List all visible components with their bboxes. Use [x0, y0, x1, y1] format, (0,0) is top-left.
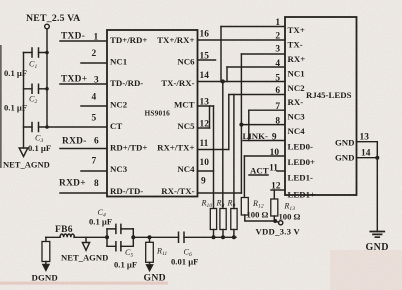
node VDD terminal circle — [275, 221, 278, 222]
svg-text:8: 8 — [275, 117, 280, 127]
svg-text:7: 7 — [92, 157, 97, 167]
junction C2-rail — [45, 87, 49, 91]
svg-text:TX-/RX-: TX-/RX- — [161, 78, 194, 88]
svg-text:HS9016: HS9016 — [145, 109, 171, 118]
svg-text:5: 5 — [92, 114, 97, 124]
svg-text:GND: GND — [144, 273, 166, 284]
svg-text:1: 1 — [94, 33, 99, 43]
svg-text:CT: CT — [110, 121, 122, 131]
resistor to DGND (unlabeled) — [45, 237, 47, 241]
svg-text:0.1 µF: 0.1 µF — [114, 260, 137, 270]
wire RJ45 pin1 TX+ line — [221, 26, 285, 28]
svg-text:RXD-: RXD- — [62, 137, 87, 147]
svg-text:0.1 µF: 0.1 µF — [4, 68, 27, 78]
svg-text:RJ45-LEDS: RJ45-LEDS — [306, 90, 352, 100]
svg-text:0.1 µF: 0.1 µF — [28, 143, 51, 153]
wire TXD- to pin1 — [60, 40, 107, 42]
wire LINK- line RJ45 pin9 — [243, 140, 285, 142]
svg-text:11: 11 — [200, 139, 209, 149]
wire column pin10 to R12 — [243, 156, 245, 198]
junction C4 block left — [105, 235, 109, 239]
wire RJ45 pin11 LED1- line — [277, 170, 285, 172]
wire HS10 stub — [198, 170, 214, 172]
text labels — [3, 13, 99, 189]
svg-text:NET_2.5 VA: NET_2.5 VA — [26, 13, 80, 24]
svg-text:RD+/TD+: RD+/TD+ — [110, 143, 147, 153]
capacitor C4 (top branch) — [107, 224, 133, 233]
svg-text:TX+: TX+ — [288, 25, 305, 35]
junction C3-CT — [45, 125, 49, 129]
ground NET_AGND left (open triangle) — [19, 148, 28, 157]
wire HS12 stub — [198, 127, 210, 129]
wire pin2 stub — [81, 62, 107, 64]
svg-text:NC4: NC4 — [177, 164, 195, 174]
resistor R8 — [220, 209, 226, 230]
scan artifact right pink tint — [330, 250, 402, 290]
svg-text:RX-/TX-: RX-/TX- — [161, 186, 194, 196]
wire RJ45 pin12 LED1+ line — [271, 189, 285, 191]
svg-text:7: 7 — [275, 102, 280, 112]
capacitor value labels — [29, 60, 295, 259]
wire R8 bottom stub — [222, 230, 224, 238]
wire bottom rail left segment — [46, 236, 60, 238]
junction R10 rail — [212, 235, 216, 239]
wire column pin7 down — [248, 110, 250, 140]
wire HS15 stub — [198, 59, 216, 61]
wire RXD- to pin6 — [60, 148, 107, 150]
resistor R10 — [210, 209, 216, 230]
svg-text:NC3: NC3 — [110, 164, 128, 174]
wire CT pin5 — [47, 126, 107, 128]
svg-text:NC4: NC4 — [288, 126, 306, 136]
transformer U1 HS9016 box — [107, 30, 198, 197]
wire HS16 stub + RJ45 pin2 TX- line — [198, 39, 286, 41]
connector J1 RJ45-LEDS box — [285, 17, 357, 195]
wire HS14 stub + RJ45 pin5 NC2 line — [198, 81, 286, 83]
svg-text:13: 13 — [360, 133, 370, 143]
wire RJ45 pin3 RX+ line — [241, 53, 285, 55]
wire column pin6 to HS11 — [228, 95, 230, 150]
svg-text:100 Ω: 100 Ω — [279, 212, 301, 222]
svg-text:GND: GND — [335, 138, 355, 148]
svg-text:DGND: DGND — [32, 273, 58, 283]
wire RJ45 pin6 RX- line — [229, 94, 285, 96]
junction VDD node — [273, 219, 277, 223]
svg-text:TD-/RD-: TD-/RD- — [110, 78, 143, 88]
svg-text:TX+/RX+: TX+/RX+ — [157, 35, 194, 45]
wire RJ45 pin4 NC1 line — [227, 66, 285, 68]
svg-text:15: 15 — [200, 52, 210, 62]
wire column down to R8 — [222, 82, 224, 209]
svg-text:NET_AGND: NET_AGND — [61, 253, 108, 263]
wire column HS13 to R10 — [213, 106, 215, 209]
svg-text:ACT: ACT — [250, 166, 269, 176]
svg-text:13: 13 — [200, 98, 210, 108]
junction HS14/TX- node — [221, 79, 225, 83]
junction R8 rail — [221, 235, 225, 239]
svg-text:GND: GND — [335, 153, 355, 163]
svg-text:GND: GND — [366, 242, 389, 253]
junction C4 block right — [131, 235, 135, 239]
svg-text:NC6: NC6 — [177, 57, 195, 67]
svg-text:4: 4 — [92, 93, 97, 103]
svg-text:NC2: NC2 — [288, 83, 306, 93]
wire R12 bottom L to R13 bottom — [245, 215, 275, 221]
capacitor C3 — [24, 123, 48, 132]
wire TXD+ to pin3 — [60, 83, 107, 85]
svg-text:TXD+: TXD+ — [61, 75, 87, 85]
wire RJ45 pin14 GND stub — [357, 157, 378, 159]
resistor R12 — [241, 198, 248, 216]
wire rail FB6 to C4 block — [74, 236, 107, 238]
wire rail C6 to resistors — [184, 236, 236, 238]
svg-text:5: 5 — [275, 74, 280, 84]
capacitor C5 (bottom branch) — [107, 242, 133, 251]
svg-text:NET_AGND: NET_AGND — [3, 160, 50, 170]
wire R10 bottom stub — [213, 230, 215, 238]
svg-text:NC1: NC1 — [110, 57, 127, 67]
svg-text:TD+/RD+: TD+/RD+ — [110, 35, 147, 45]
svg-text:RX-: RX- — [288, 97, 304, 107]
ground NET_AGND bottom (open triangle) — [85, 237, 87, 242]
svg-text:3: 3 — [275, 45, 280, 55]
wire column to RJ45 pin1 — [220, 27, 222, 82]
svg-text:4: 4 — [275, 59, 280, 69]
svg-text:100 Ω: 100 Ω — [247, 210, 269, 220]
svg-text:0.1 µF: 0.1 µF — [4, 103, 27, 113]
RJ45 chip texts — [243, 18, 371, 200]
wire RJ45 pin8 NC4 line — [241, 124, 285, 126]
svg-text:8: 8 — [94, 179, 99, 189]
svg-text:LED0-: LED0- — [288, 142, 313, 152]
svg-text:2: 2 — [275, 32, 280, 42]
wire column pin12 to R13 — [273, 190, 275, 199]
svg-text:NC5: NC5 — [177, 121, 195, 131]
resistor R13 — [271, 199, 278, 216]
svg-text:1: 1 — [275, 18, 280, 28]
wire left AGND rail vertical — [23, 53, 25, 149]
wire R9 column to RX- line — [233, 95, 235, 209]
svg-text:VDD_3.3 V: VDD_3.3 V — [256, 227, 301, 237]
svg-text:LED0+: LED0+ — [288, 157, 316, 167]
capacitor C2 — [24, 84, 48, 93]
wire pin4 stub — [81, 105, 107, 107]
svg-text:9: 9 — [201, 177, 206, 187]
svg-text:NC1: NC1 — [288, 69, 305, 79]
svg-text:TX-: TX- — [288, 40, 303, 50]
wire HS11 stub — [198, 149, 229, 151]
svg-text:RXD+: RXD+ — [59, 179, 86, 189]
wire RXD+ to pin8 — [60, 192, 107, 194]
svg-text:16: 16 — [200, 30, 210, 40]
wire RJ45 pin7 NC3 line — [249, 109, 285, 111]
capacitor C6 — [179, 232, 185, 242]
wire ACT underline — [249, 174, 268, 176]
svg-text:0.01 µF: 0.01 µF — [171, 257, 198, 267]
svg-text:RX+/TX+: RX+/TX+ — [157, 143, 194, 153]
wire column RJ45 pin4 NC1 — [226, 67, 228, 82]
svg-text:12: 12 — [200, 120, 210, 130]
ground DGND arrow — [45, 262, 47, 265]
svg-text:12: 12 — [271, 182, 281, 192]
HS9016 chip texts — [110, 30, 209, 197]
scan artifact bottom pink smear — [0, 282, 168, 285]
wire R13 bottom stub — [273, 216, 275, 221]
svg-text:NC3: NC3 — [288, 112, 306, 122]
svg-text:NC2: NC2 — [110, 100, 128, 110]
svg-text:11: 11 — [269, 164, 278, 174]
wire GND column — [376, 142, 378, 232]
svg-text:RD-/TD-: RD-/TD- — [110, 186, 143, 196]
wire pin7 stub — [81, 170, 107, 172]
scan artifact left edge — [0, 45, 2, 168]
wire HS9 stub — [198, 192, 242, 194]
junction RX column / pin8 line — [239, 123, 243, 127]
capacitor C1 — [24, 48, 48, 57]
wire HS13 stub — [198, 105, 214, 107]
svg-text:6: 6 — [275, 86, 280, 96]
wire RJ45 pin10 LED0+ line — [244, 155, 285, 157]
svg-text:FB6: FB6 — [55, 225, 73, 235]
svg-text:14: 14 — [200, 71, 210, 81]
wire R9 bottom stub — [233, 230, 235, 238]
wire column pin3 to HS9 — [240, 54, 242, 193]
svg-text:LED1-: LED1- — [288, 173, 313, 183]
wire NET_2.5VA rail vertical — [46, 29, 48, 127]
svg-text:LINK-: LINK- — [243, 131, 268, 141]
svg-text:MCT: MCT — [174, 100, 195, 110]
svg-text:LED1+: LED1+ — [288, 190, 316, 200]
svg-text:10: 10 — [270, 148, 280, 158]
svg-text:RX+: RX+ — [288, 54, 306, 64]
ground GND arrow under R11 — [149, 262, 151, 265]
inductor FB6 ferrite bead — [60, 234, 74, 237]
svg-text:2: 2 — [92, 49, 97, 59]
resistor R9 — [231, 209, 237, 230]
svg-text:10: 10 — [200, 158, 210, 168]
wire RJ45 pin13 GND stub — [357, 141, 378, 143]
svg-text:14: 14 — [361, 149, 371, 159]
resistor R11 — [149, 237, 151, 242]
junction R11 — [148, 235, 152, 239]
svg-text:0.1 µF: 0.1 µF — [89, 217, 112, 227]
junction GND node — [375, 156, 379, 160]
svg-text:9: 9 — [272, 133, 277, 143]
svg-text:6: 6 — [94, 137, 99, 147]
node NET_2.5 VA terminal — [45, 24, 50, 29]
svg-text:3: 3 — [94, 76, 99, 86]
wire rail C4 to C6 — [133, 236, 178, 238]
ground GND right symbol — [370, 232, 384, 238]
svg-text:TXD-: TXD- — [61, 32, 85, 42]
wire C4/C5 side verticals — [107, 229, 133, 246]
wire HS13-HS12 link — [209, 106, 211, 128]
junction R9 rail — [232, 235, 236, 239]
junction C1-rail — [45, 51, 49, 55]
